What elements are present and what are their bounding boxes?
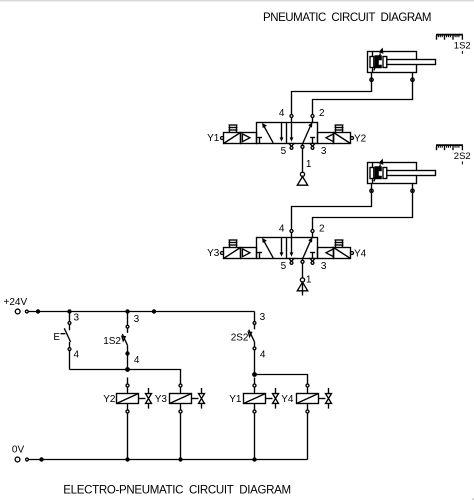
svg-text:Y2: Y2 <box>354 134 367 145</box>
svg-text:Y3: Y3 <box>207 248 220 259</box>
wire: valve V2 port 4 to cylinder 2A left port <box>292 189 372 229</box>
junction: +24V rail / contact E <box>67 309 71 313</box>
svg-text:Y4: Y4 <box>354 249 367 260</box>
svg-text:1S2: 1S2 <box>454 40 471 51</box>
svg-text:Y2: Y2 <box>103 394 116 405</box>
wire: valve V2 port 2 to cylinder 2A right port <box>313 189 413 229</box>
junction: 1S2 output / coil Y2 branch <box>125 367 130 372</box>
svg-text:2: 2 <box>319 223 325 234</box>
svg-text:5: 5 <box>281 261 287 272</box>
svg-text:2S2: 2S2 <box>454 151 471 162</box>
svg-text:1S2: 1S2 <box>103 336 121 347</box>
cylinder 1A (double-acting, adjustable cushioning) <box>368 48 436 82</box>
wire: contact E to junction row <box>69 351 71 370</box>
ruler for limit switch 2S2 <box>436 145 463 164</box>
limit switch contact 2S2 (normally open) <box>248 312 256 375</box>
valve V1 compressed air supply at port 1 <box>297 148 307 185</box>
svg-text:1: 1 <box>306 159 312 170</box>
svg-text:1: 1 <box>306 274 312 285</box>
wire: E/1S2 output row to coil Y3 <box>70 370 181 378</box>
node on 0V rail <box>39 457 43 461</box>
svg-text:3: 3 <box>321 261 327 272</box>
svg-text:4: 4 <box>279 108 285 119</box>
junction: 2S2 output / coil Y1 branch <box>252 372 257 377</box>
0V supply terminals <box>15 457 28 462</box>
wire: 2S2 output row to coil Y4 <box>255 375 308 378</box>
cylinder 2A (double-acting, adjustable cushioning) <box>368 159 436 193</box>
solenoid coil Y3 <box>170 378 205 460</box>
junction: +24V rail / contact 1S2 <box>125 309 129 313</box>
junction: 0V rail / coil Y3 <box>178 457 182 461</box>
ruler for limit switch 1S2 <box>436 35 463 54</box>
limit switch contact 1S2 (normally open) <box>122 312 129 370</box>
svg-text:Y4: Y4 <box>281 394 294 405</box>
svg-text:0V: 0V <box>12 444 25 455</box>
svg-text:4: 4 <box>134 355 140 366</box>
svg-text:PNEUMATIC CIRCUIT DIAGRAM: PNEUMATIC CIRCUIT DIAGRAM <box>263 12 432 24</box>
svg-text:ELECTRO-PNEUMATIC CIRCUIT DI: ELECTRO-PNEUMATIC CIRCUIT DIAGRAM <box>63 484 291 496</box>
junction: 0V rail / coil Y2 <box>125 457 129 461</box>
svg-text:3: 3 <box>134 314 140 325</box>
wire: 0V rail <box>28 459 307 461</box>
solenoid coil Y4 <box>297 378 332 460</box>
svg-text:+24V: +24V <box>4 297 28 308</box>
valve V2 compressed air supply at port 1 <box>297 263 307 295</box>
svg-text:E: E <box>53 332 60 343</box>
svg-text:4: 4 <box>74 350 80 361</box>
svg-text:5: 5 <box>281 146 287 157</box>
valve V2: 5/2-way double solenoid valve <box>221 230 354 265</box>
wire: valve V1 port 2 to cylinder 1A right port <box>313 78 413 114</box>
svg-text:3: 3 <box>260 312 266 323</box>
pushbutton contact E (normally open) <box>61 312 71 351</box>
svg-text:Y1: Y1 <box>229 394 242 405</box>
svg-text:3: 3 <box>321 146 327 157</box>
solenoid coil Y1 <box>244 378 279 460</box>
node on +24V rail <box>36 309 40 313</box>
svg-text:Y1: Y1 <box>207 133 220 144</box>
wire: +24V rail <box>28 311 254 313</box>
node on +24V rail <box>152 309 156 313</box>
+24V supply terminals <box>15 309 28 314</box>
junction: 0V rail / coil Y1 <box>252 457 256 461</box>
svg-text:Y3: Y3 <box>155 394 168 405</box>
svg-text:4: 4 <box>279 223 285 234</box>
valve V1: 5/2-way double solenoid valve <box>221 115 354 150</box>
node: 1S2 lower terminal <box>125 351 129 355</box>
svg-text:4: 4 <box>260 350 266 361</box>
svg-text:2S2: 2S2 <box>231 332 249 343</box>
svg-text:2: 2 <box>319 108 325 119</box>
svg-text:3: 3 <box>74 313 80 324</box>
solenoid coil Y2 <box>117 378 152 460</box>
wire: valve V1 port 4 to cylinder 1A left port <box>292 78 372 114</box>
